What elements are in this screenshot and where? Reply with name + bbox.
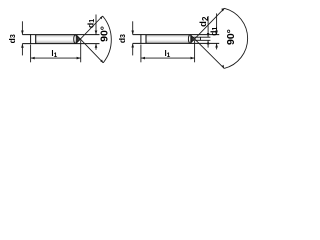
arc top arrowhead (221, 8, 225, 11)
d1 dimension line upper (95, 15, 97, 35)
NE cutting-edge construction line (76, 16, 103, 44)
bottom outline + d1 bottom extension (22, 43, 99, 45)
d3 dimension line upper (132, 21, 134, 34)
cylinder body fill (36, 35, 76, 44)
cone base ellipse (74, 35, 77, 44)
svg-text:90°: 90° (225, 29, 237, 45)
d2 dimension line lower (207, 40, 209, 47)
svg-text:d1: d1 (86, 19, 96, 28)
d3 dimension line lower (21, 44, 23, 56)
d1 dimension line lower (216, 43, 218, 49)
pilot end face (200, 37, 202, 40)
bottom outline + d1 bottom extension (133, 42, 220, 44)
inner vertical line (35, 35, 37, 44)
l1 left extension (140, 45, 142, 63)
angle dimension arc (103, 16, 112, 63)
svg-text:d1: d1 (209, 27, 219, 36)
svg-text:d3: d3 (7, 34, 17, 43)
angle dimension arc (224, 8, 247, 68)
SE cutting-edge construction line (190, 35, 224, 69)
left face (140, 34, 142, 44)
l1 left extension (30, 45, 32, 63)
cone base ellipse (188, 35, 191, 44)
svg-text:l1: l1 (164, 49, 170, 59)
l1 right extension (80, 40, 82, 62)
top outline + d1 top extension (133, 34, 220, 36)
svg-text:d2: d2 (198, 16, 209, 27)
left face (30, 34, 32, 44)
d1 dimension line upper (216, 13, 218, 34)
top outline + d1 top extension (22, 34, 99, 36)
cone shaded wedge (76, 36, 81, 42)
SE cutting-edge construction line (76, 35, 103, 63)
cone shaded wedge (190, 35, 194, 43)
svg-text:90°: 90° (99, 26, 111, 42)
arc bottom arrowhead (222, 65, 225, 69)
arc top arrowhead (100, 16, 103, 19)
d1 dimension line lower (95, 44, 97, 50)
l1 dimension line (141, 57, 195, 59)
d2 dimension line upper (207, 16, 209, 37)
d3 dimension line upper (21, 21, 23, 34)
cylinder body fill (146, 35, 190, 44)
NE cutting-edge construction line (190, 8, 224, 43)
pilot fill (194, 37, 201, 40)
d3 dimension line lower (132, 43, 134, 55)
l1 dimension line (31, 57, 81, 59)
l1 right extension (194, 41, 196, 62)
svg-text:l1: l1 (51, 49, 57, 59)
pilot bottom outline + d2 extension (194, 39, 211, 41)
arc bottom arrowhead (100, 60, 103, 63)
inner vertical line (145, 35, 147, 44)
pilot top outline + d2 extension (194, 36, 211, 38)
svg-text:d3: d3 (117, 34, 127, 43)
